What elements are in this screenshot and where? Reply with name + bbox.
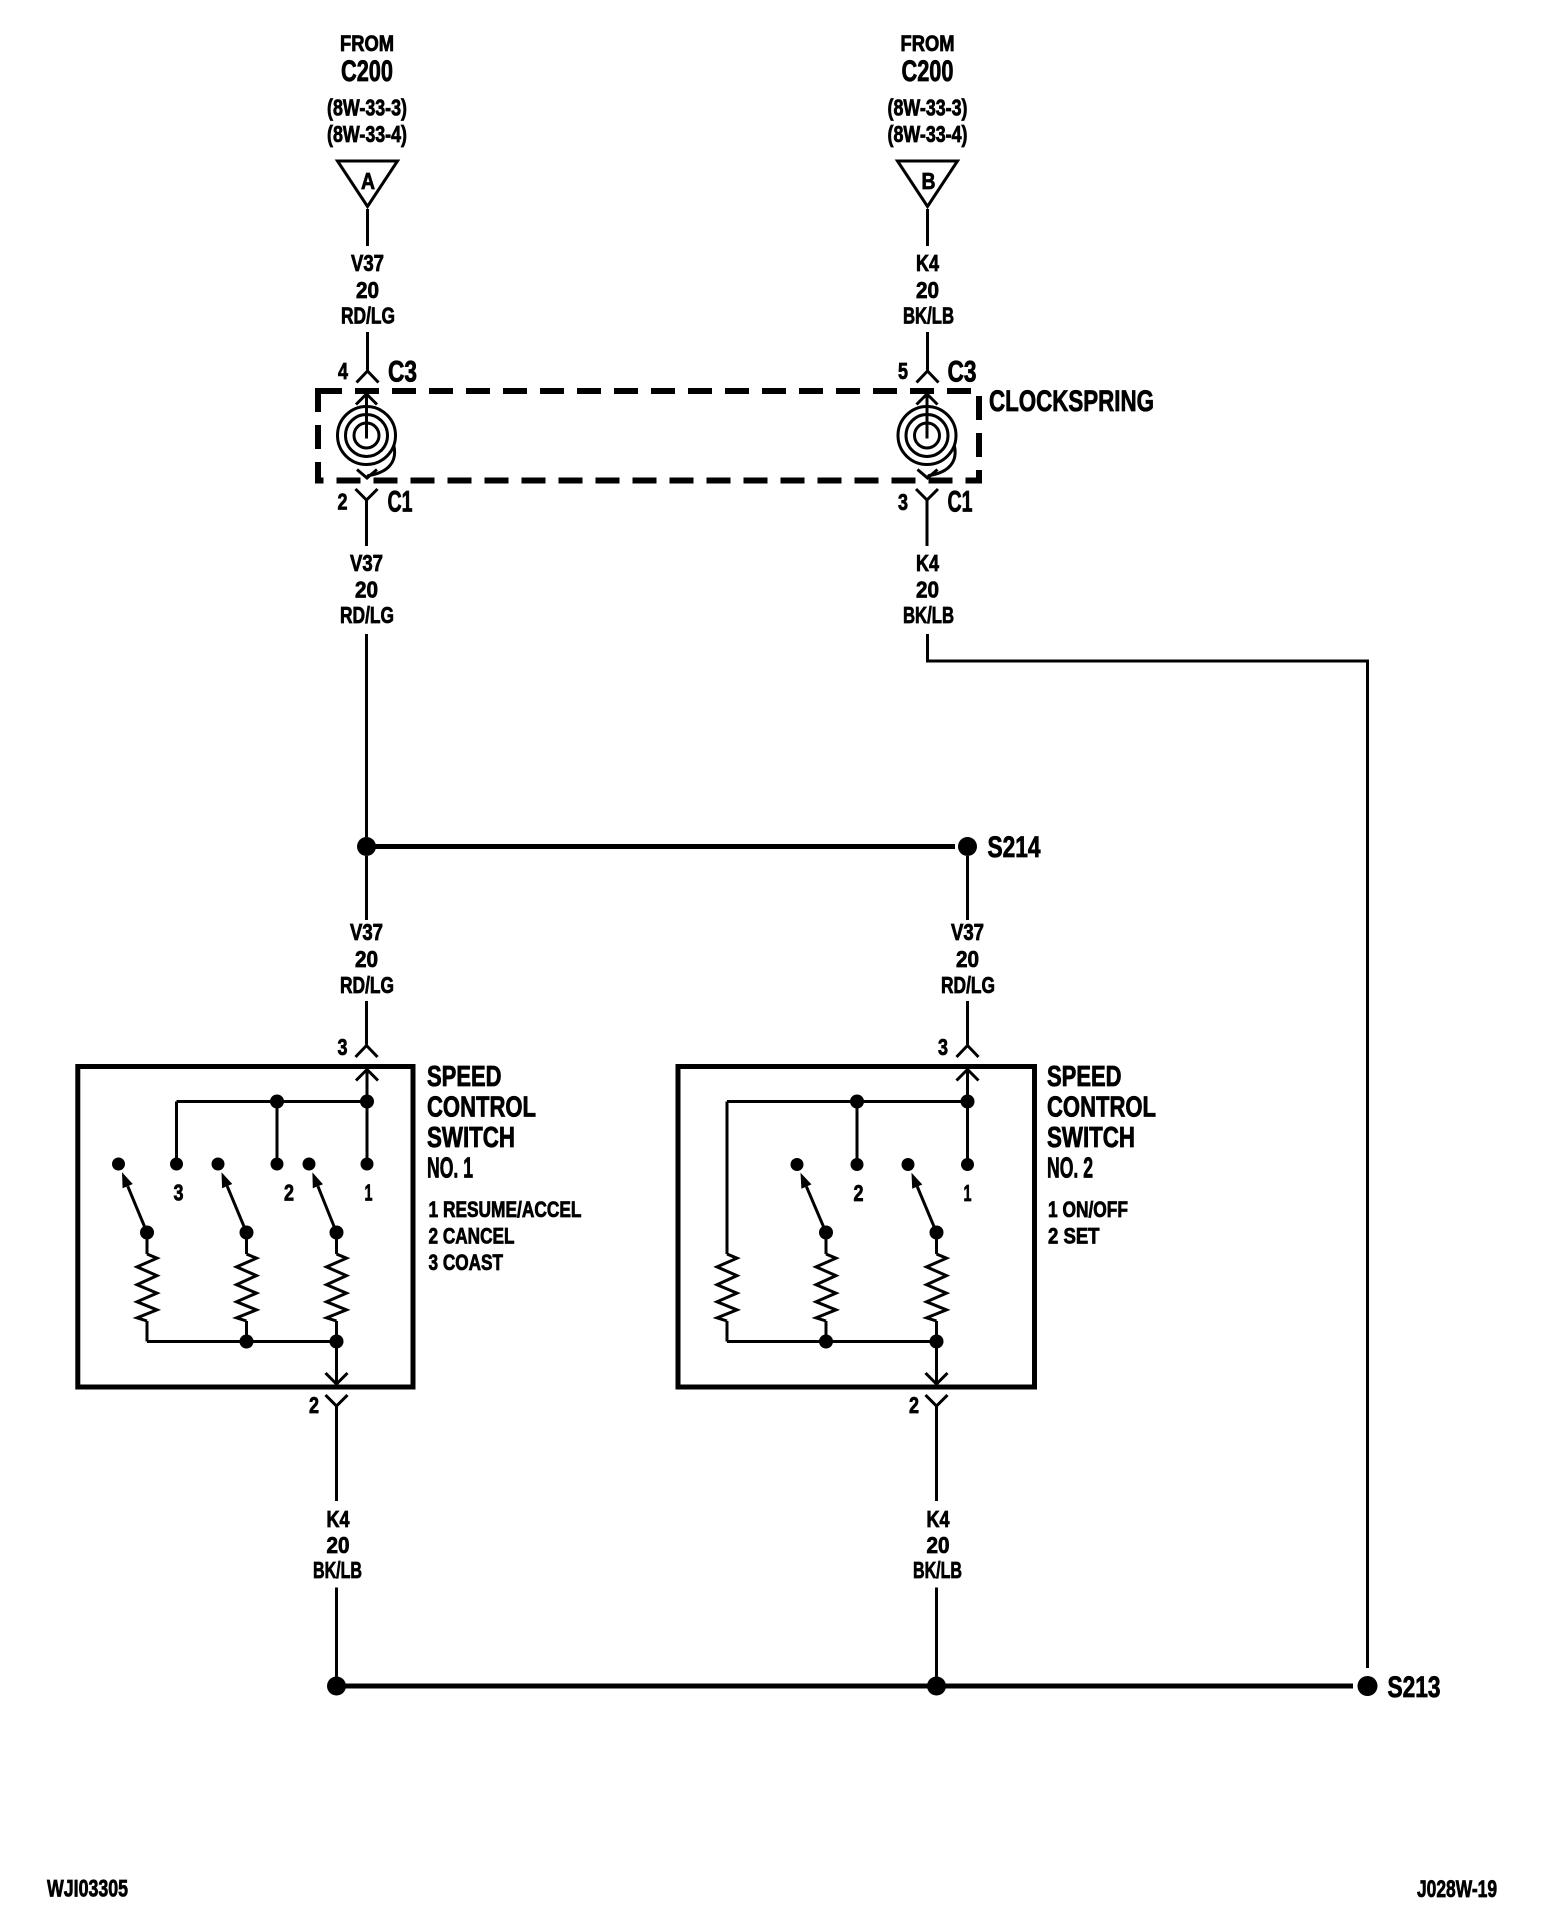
switch 2 feed bus: [727, 1100, 968, 1103]
svg-text:FROM: FROM: [901, 31, 955, 56]
svg-text:A: A: [361, 168, 375, 194]
switch 1 resume pivot dot: [330, 1226, 344, 1240]
svg-text:(8W-33-4): (8W-33-4): [327, 121, 407, 147]
switch 1 return bus: [147, 1340, 337, 1343]
switch 2 bus drop to terminal 2: [856, 1102, 859, 1165]
off-page triangle B: [898, 161, 958, 207]
svg-text:RD/LG: RD/LG: [340, 972, 394, 998]
svg-text:BK/LB: BK/LB: [903, 303, 954, 329]
svg-text:2: 2: [909, 1392, 919, 1418]
switch 1 entry arrow: [356, 1070, 378, 1081]
switch 2 resistor 1 lower lead: [726, 1321, 729, 1342]
switch 2 return bus dot exit: [930, 1335, 944, 1349]
svg-text:BK/LB: BK/LB: [903, 602, 954, 628]
wire from triangle A: [366, 209, 369, 246]
switch 2 set arm: [806, 1187, 826, 1233]
switch 2 resistor 2: [816, 1254, 836, 1321]
switch 1 resistor 1: [137, 1254, 157, 1321]
svg-text:CONTROL: CONTROL: [1047, 1092, 1156, 1124]
svg-text:BK/LB: BK/LB: [913, 1557, 962, 1583]
wire S214 to switch 2 (upper): [966, 856, 969, 920]
switch 2 resistor 3: [927, 1254, 947, 1321]
switch 1 terminal dot resume-throw: [303, 1158, 316, 1171]
switch 1 resistor 2: [237, 1254, 257, 1321]
switch 1 resistor 2 lower lead: [245, 1321, 248, 1342]
svg-text:V37: V37: [951, 919, 984, 945]
switch 2 resistor 3 lead: [935, 1233, 938, 1255]
svg-text:20: 20: [327, 1532, 350, 1558]
switch 1 terminal dot 1: [361, 1158, 374, 1171]
splice rail S213: [337, 1684, 1354, 1689]
switch 1 feed bus: [177, 1100, 368, 1103]
svg-text:K4: K4: [327, 1506, 350, 1532]
switch 2 resistor 2 lower lead: [825, 1321, 828, 1342]
switch 2 pin 2 connector symbol: [926, 1395, 948, 1406]
switch 1 terminal dot 3: [170, 1158, 183, 1171]
svg-text:V37: V37: [350, 550, 383, 576]
svg-text:3: 3: [174, 1180, 184, 1206]
switch 2 bus drop to terminal 1: [966, 1102, 969, 1165]
svg-text:5: 5: [898, 358, 908, 384]
connector C3 pin 5 symbol: [917, 371, 939, 383]
switch 1 terminal dot 2: [271, 1158, 284, 1171]
switch 1 cancel pivot dot: [240, 1226, 254, 1240]
clockspring coil right: [917, 394, 938, 405]
svg-text:(8W-33-3): (8W-33-3): [327, 95, 407, 121]
svg-text:3: 3: [338, 1034, 348, 1060]
svg-text:K4: K4: [927, 1506, 950, 1532]
switch 1 resistor 1 lead: [146, 1233, 149, 1255]
junction dot S213 left: [327, 1677, 346, 1696]
switch 1 terminal dot cancel-throw: [212, 1158, 225, 1171]
svg-text:3: 3: [898, 489, 908, 515]
switch 2 resistor 1: [717, 1254, 737, 1321]
speed control switch no.1 outline: [78, 1067, 413, 1388]
switch 2 terminal dot onoff-throw: [902, 1158, 915, 1171]
junction dot S214: [958, 837, 977, 856]
svg-text:20: 20: [916, 277, 939, 303]
clockspring dashed outline: [318, 391, 979, 481]
svg-text:3: 3: [938, 1034, 948, 1060]
junction dot S213 mid: [927, 1677, 946, 1696]
switch 1 bus drop to terminal 1: [366, 1102, 369, 1165]
switch 1 resume arm: [318, 1186, 337, 1232]
svg-text:FROM: FROM: [340, 31, 394, 56]
svg-text:CLOCKSPRING: CLOCKSPRING: [989, 385, 1154, 418]
switch 2 bus junction dot (pin1 col): [961, 1095, 975, 1109]
svg-text:20: 20: [355, 577, 378, 603]
svg-text:RD/LG: RD/LG: [941, 972, 995, 998]
wire to clockspring pin 4: [366, 332, 369, 371]
svg-text:C3: C3: [388, 356, 417, 389]
svg-text:WJI03305: WJI03305: [47, 1876, 128, 1903]
svg-text:1 RESUME/ACCEL: 1 RESUME/ACCEL: [429, 1197, 582, 1222]
svg-text:C1: C1: [388, 486, 413, 519]
svg-text:S213: S213: [1388, 1671, 1441, 1704]
switch 1 coast pivot dot: [140, 1226, 154, 1240]
switch 2 return bus dot mid: [819, 1335, 833, 1349]
svg-text:1: 1: [964, 1180, 972, 1206]
svg-text:C1: C1: [948, 486, 973, 519]
switch 2 onoff pivot dot: [930, 1226, 944, 1240]
svg-text:2: 2: [309, 1392, 319, 1418]
switch 1 exit arrow: [326, 1373, 348, 1384]
svg-text:B: B: [922, 168, 936, 194]
svg-text:NO. 2: NO. 2: [1047, 1153, 1093, 1185]
switch 2 entry arrow: [957, 1070, 979, 1081]
svg-text:SPEED: SPEED: [427, 1061, 502, 1093]
svg-text:SWITCH: SWITCH: [1047, 1122, 1135, 1154]
switch 2 set pivot dot: [819, 1226, 833, 1240]
svg-text:C200: C200: [902, 55, 954, 88]
svg-text:20: 20: [916, 577, 939, 603]
svg-text:NO. 1: NO. 1: [427, 1153, 473, 1185]
switch 1 pin 3 connector symbol: [356, 1046, 378, 1058]
connector C1 pin 2 symbol: [356, 489, 378, 500]
switch 1 resistor 2 lead: [245, 1233, 248, 1255]
wire from triangle B: [926, 209, 929, 246]
switch 1 cancel arm: [227, 1186, 246, 1232]
switch 2 onoff arm: [917, 1187, 936, 1233]
switch 2 return bus: [727, 1340, 937, 1343]
wire to clockspring pin 5: [926, 332, 929, 371]
svg-text:(8W-33-4): (8W-33-4): [888, 121, 968, 147]
svg-text:4: 4: [338, 358, 348, 384]
switch 2 bus drop to resistor 1: [726, 1102, 729, 1255]
clockspring coil left: [356, 394, 377, 405]
svg-text:1: 1: [365, 1180, 373, 1206]
switch 1 return bus dot mid: [240, 1335, 254, 1349]
switch 1 resistor 1 lower lead: [146, 1321, 149, 1342]
switch 1 bus drop to terminal 3: [175, 1102, 178, 1165]
switch 2 terminal dot set-throw: [791, 1158, 804, 1171]
svg-text:SWITCH: SWITCH: [427, 1122, 515, 1154]
switch 2 exit arrow: [926, 1373, 948, 1384]
switch 1 pin 2 connector symbol: [326, 1395, 348, 1406]
wire S214 to switch 2 (lower): [966, 1001, 969, 1045]
off-page triangle A: [338, 161, 398, 207]
switch 1 terminal dot coast-throw: [112, 1158, 125, 1171]
svg-text:2 CANCEL: 2 CANCEL: [429, 1224, 515, 1249]
svg-text:J028W-19: J028W-19: [1417, 1876, 1497, 1903]
svg-text:(8W-33-3): (8W-33-3): [888, 95, 968, 121]
wire switch 2 to S213: [935, 1588, 938, 1677]
switch 2 terminal dot 2: [851, 1158, 864, 1171]
svg-text:2: 2: [284, 1180, 294, 1206]
wire S214 to switch 1 (upper): [365, 856, 368, 920]
switch 1 bus drop to terminal 2: [276, 1102, 279, 1165]
switch 2 resistor 2 lead: [825, 1233, 828, 1255]
wire switch 1 to S213: [335, 1588, 338, 1677]
svg-text:V37: V37: [350, 919, 383, 945]
switch 1 return bus dot exit: [330, 1335, 344, 1349]
wire S214 to switch 1 (lower): [365, 1001, 368, 1045]
switch 1 resistor 3: [327, 1254, 347, 1321]
svg-text:C200: C200: [341, 55, 393, 88]
junction dot S213: [1358, 1676, 1378, 1696]
switch 1 coast arm: [128, 1186, 147, 1232]
wire C1 left to splice S214: [365, 634, 368, 837]
junction dot at S214 left: [357, 837, 376, 856]
svg-text:K4: K4: [916, 550, 939, 576]
switch 1 resistor 3 lead: [335, 1233, 338, 1255]
svg-text:1 ON/OFF: 1 ON/OFF: [1048, 1197, 1128, 1222]
speed control switch no.2 outline: [678, 1067, 1035, 1388]
wire C1 right to S213 rail: [928, 634, 1368, 1668]
svg-text:RD/LG: RD/LG: [340, 602, 394, 628]
svg-text:2: 2: [338, 489, 348, 515]
switch 1 resistor 3 lower lead: [335, 1321, 338, 1342]
switch 2 terminal dot 1: [961, 1158, 974, 1171]
svg-text:2 SET: 2 SET: [1048, 1224, 1100, 1249]
svg-text:20: 20: [355, 946, 378, 972]
svg-text:V37: V37: [351, 250, 384, 276]
switch 2 bus junction dot (pin2 col): [850, 1095, 864, 1109]
svg-text:C3: C3: [948, 356, 977, 389]
svg-text:SPEED: SPEED: [1047, 1061, 1122, 1093]
svg-text:20: 20: [956, 946, 979, 972]
switch 2 resistor 3 lower lead: [935, 1321, 938, 1342]
switch 1 bus junction dot (pin2 col): [270, 1095, 284, 1109]
svg-text:RD/LG: RD/LG: [341, 303, 395, 329]
switch 2 pin 3 connector symbol: [957, 1046, 979, 1058]
svg-text:2: 2: [854, 1180, 864, 1206]
svg-text:K4: K4: [916, 250, 939, 276]
svg-text:20: 20: [356, 277, 379, 303]
svg-text:CONTROL: CONTROL: [427, 1092, 536, 1124]
connector C1 pin 3 symbol: [916, 489, 938, 500]
switch 1 bus junction dot (pin1 col): [360, 1095, 374, 1109]
svg-text:BK/LB: BK/LB: [313, 1557, 362, 1583]
connector C3 pin 4 symbol: [357, 371, 379, 383]
splice rail S214: [367, 844, 956, 849]
svg-text:20: 20: [927, 1532, 950, 1558]
svg-text:3 COAST: 3 COAST: [429, 1250, 504, 1275]
svg-text:S214: S214: [988, 831, 1041, 864]
